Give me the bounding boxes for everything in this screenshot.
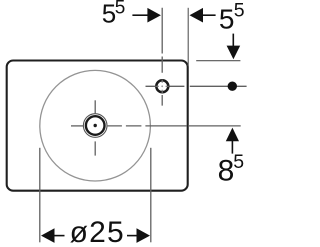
drain center dot <box>94 124 97 127</box>
basin outline <box>7 61 188 191</box>
drain centerline bottom <box>94 141 96 155</box>
drain centerline top <box>94 100 96 113</box>
bowl horizontal centerline right <box>108 125 241 127</box>
tap hole inner ticks <box>156 80 169 93</box>
extension line right edge (top dim) <box>187 8 189 66</box>
reference dot on tap centerline <box>228 82 237 91</box>
drain outer ring <box>83 114 107 138</box>
dia25 dim arrow right (points right) <box>137 228 151 243</box>
svg-text:5: 5 <box>234 0 245 22</box>
svg-text:ø25: ø25 <box>70 216 125 247</box>
top dim arrow left (points right) <box>147 8 161 23</box>
bowl circle <box>40 70 151 181</box>
svg-text:5: 5 <box>233 151 244 173</box>
svg-text:5: 5 <box>115 0 126 18</box>
8^5 dim arrow (points up) <box>226 128 239 142</box>
drain inner ring <box>86 116 105 135</box>
tap hole <box>156 80 168 92</box>
left extension line (dia 25) <box>39 148 41 243</box>
top dim arrow right (points left) <box>190 8 204 23</box>
svg-text:5: 5 <box>219 4 235 35</box>
svg-text:8: 8 <box>218 155 235 188</box>
top edge extension line <box>196 60 240 62</box>
tap horizontal centerline <box>146 85 247 87</box>
top-right vertical dim arrow (points down) <box>232 34 234 47</box>
tap vertical centerline <box>161 8 163 106</box>
right extension line (dia 25) <box>150 148 152 243</box>
dia25 dim arrow left (points left) <box>41 228 55 243</box>
drain centerline left <box>71 125 84 127</box>
